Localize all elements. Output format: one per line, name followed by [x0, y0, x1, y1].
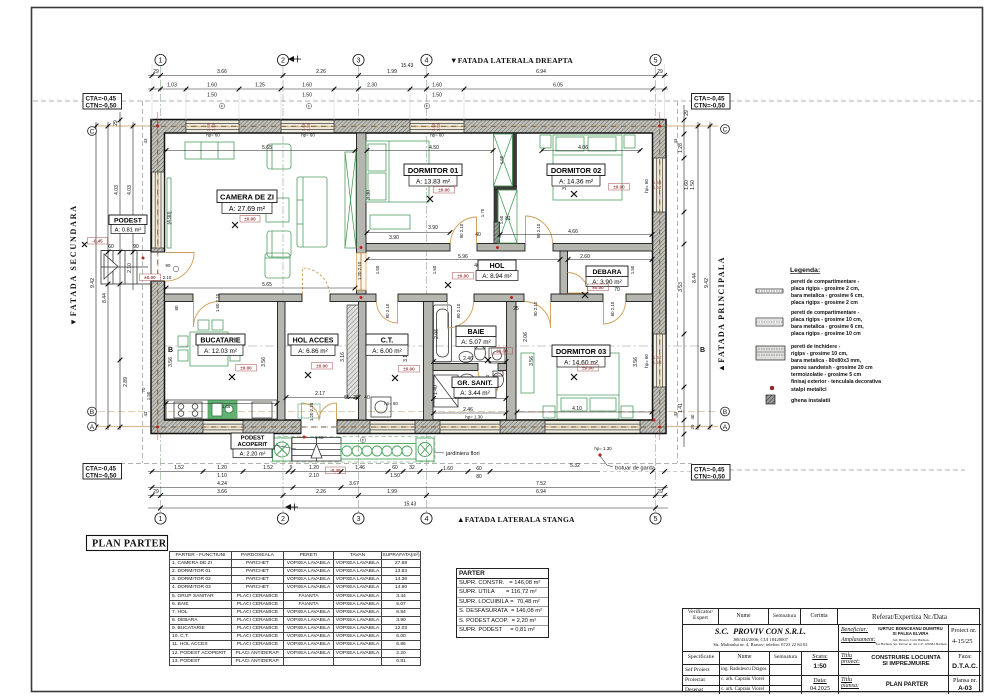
door arc dormitor 01 [451, 217, 477, 244]
jardiniera flori planter [341, 444, 416, 460]
svg-text:2: 2 [281, 56, 285, 65]
svg-text:2.26: 2.26 [316, 489, 326, 495]
svg-text:80 2.10: 80 2.10 [456, 303, 461, 318]
svg-text:A: 13.83 m²: A: 13.83 m² [416, 179, 451, 186]
svg-text:43: 43 [673, 411, 678, 416]
svg-text:3.56: 3.56 [168, 357, 174, 367]
door arc c.t. [377, 302, 398, 324]
svg-text:29: 29 [657, 69, 663, 75]
dormitor 02 closet [498, 190, 517, 243]
svg-text:3.90: 3.90 [428, 225, 438, 231]
svg-text:9: 9 [290, 465, 293, 471]
hp labels [206, 133, 649, 452]
door arc camera/hol V1 opening [357, 253, 367, 290]
svg-text:60: 60 [476, 466, 482, 472]
svg-text:1.60: 1.60 [443, 466, 453, 472]
svg-text:15.43: 15.43 [404, 502, 417, 508]
jardiniera flori leader [434, 451, 480, 457]
svg-text:6.94: 6.94 [536, 69, 546, 75]
exterior wall bottom band [151, 420, 666, 434]
plan parter title [87, 536, 168, 551]
dormitor 03 nightstand left [543, 406, 555, 418]
svg-text:C: C [723, 126, 728, 133]
svg-text:placa rigips - grosime 2 cm: placa rigips - grosime 2 cm [791, 300, 858, 306]
gr sanit wc [493, 371, 504, 387]
svg-text:60: 60 [392, 465, 398, 471]
door arc dormitor 02 [526, 216, 553, 244]
room label gr. sanit. [452, 377, 498, 398]
svg-text:1.99: 1.99 [387, 489, 397, 495]
svg-text:▼FATADA LATERALA DREAPTA: ▼FATADA LATERALA DREAPTA [450, 56, 573, 65]
svg-text:2.60: 2.60 [580, 254, 590, 260]
exterior wall left band [151, 120, 165, 434]
axis bubbles bottom [155, 513, 661, 524]
CTA box top-right [692, 94, 731, 110]
svg-text:A: 14.36 m²: A: 14.36 m² [559, 179, 594, 186]
svg-text:±0.00: ±0.00 [144, 275, 156, 280]
roof outline dashed left [142, 101, 144, 463]
door arc bottom entrance leaf 1 [302, 403, 320, 421]
svg-text:±0.00: ±0.00 [582, 366, 594, 371]
svg-text:ghena instalatii: ghena instalatii [791, 398, 831, 404]
svg-text:1.50: 1.50 [306, 122, 311, 131]
svg-text:1.60 2.10: 1.60 2.10 [215, 293, 220, 312]
svg-text:DORMITOR 01: DORMITOR 01 [408, 166, 458, 175]
title block [682, 608, 980, 692]
door arc bottom entrance leaf 2 [319, 403, 337, 421]
svg-text:hp= 1.30: hp= 1.30 [594, 446, 612, 451]
exterior wall right band [653, 120, 667, 434]
legend symbol 2 [756, 318, 783, 326]
svg-text:43: 43 [673, 138, 678, 143]
svg-text:60: 60 [108, 244, 114, 250]
window F marks top [219, 103, 429, 442]
door gap left entrance [150, 252, 166, 281]
svg-text:5: 5 [654, 514, 658, 523]
interior wall H1 corridor south [165, 294, 653, 302]
room label debara [586, 266, 628, 287]
svg-text:bara metalica - 80x80x3 mm,: bara metalica - 80x80x3 mm, [791, 358, 862, 364]
svg-text:1.03: 1.03 [167, 83, 177, 89]
svg-text:3.30: 3.30 [366, 190, 372, 200]
svg-text:DORMITOR 02: DORMITOR 02 [551, 166, 601, 175]
room label bucatarie [196, 334, 245, 356]
bucatarie fridge [252, 402, 272, 418]
gr sanit shower [434, 375, 458, 407]
svg-text:81: 81 [505, 216, 511, 222]
finishes table [169, 551, 421, 666]
svg-text:pereti de compartimentare -: pereti de compartimentare - [791, 279, 860, 285]
svg-text:DEBARA: DEBARA [592, 269, 621, 276]
dormitor 02 nightstand right [624, 135, 635, 148]
svg-text:1.52: 1.52 [174, 465, 184, 471]
svg-text:A: A [723, 424, 728, 431]
svg-text:3.67: 3.67 [349, 481, 359, 487]
svg-text:1.99: 1.99 [387, 69, 397, 75]
svg-text:A: 6.00 m²: A: 6.00 m² [372, 348, 401, 355]
svg-text:±0.00: ±0.00 [457, 274, 469, 279]
axis bubbles top [155, 54, 661, 65]
svg-text:pereti de inchidere -: pereti de inchidere - [791, 344, 841, 350]
svg-text:1.20 2.10: 1.20 2.10 [357, 261, 362, 280]
svg-text:PODEST: PODEST [114, 218, 143, 225]
bucatarie counter [166, 400, 277, 419]
camera de zi closet on V1 [345, 152, 356, 248]
svg-text:±0.00: ±0.00 [240, 366, 252, 371]
svg-text:A: 6.86 m²: A: 6.86 m² [298, 348, 327, 355]
camera de zi armchair 1 [267, 144, 291, 169]
svg-text:A: 5.07 m²: A: 5.07 m² [461, 339, 490, 346]
level dashed line top [33, 100, 981, 102]
svg-text:CTA=-0,45: CTA=-0,45 [694, 467, 725, 474]
door arc baie [448, 302, 474, 329]
svg-text:6.05: 6.05 [553, 83, 563, 89]
svg-text:8.44: 8.44 [692, 273, 698, 283]
svg-text:placa rigips - grosime 10 cm,: placa rigips - grosime 10 cm, [791, 317, 863, 323]
left letter bubbles [88, 127, 97, 431]
baie bathtub [434, 305, 452, 362]
window bottom (dormitor 03) [545, 421, 640, 433]
svg-text:±0.00: ±0.00 [316, 364, 328, 369]
svg-text:±0.00: ±0.00 [438, 188, 450, 193]
window bottom (bucatarie) [203, 421, 243, 433]
right wall axis vertical tan [659, 112, 661, 440]
svg-text:7.52: 7.52 [536, 481, 546, 487]
svg-text:90 2.10: 90 2.10 [536, 223, 541, 238]
door arc bucatarie [193, 302, 218, 328]
svg-text:1.52: 1.52 [263, 465, 273, 471]
room label c.t. [366, 334, 408, 356]
svg-text:5.65: 5.65 [262, 282, 272, 288]
svg-text:jardiniera flori: jardiniera flori [445, 451, 480, 457]
svg-text:A: 27.69 m²: A: 27.69 m² [229, 206, 266, 213]
dormitor 01 closet [494, 134, 513, 186]
svg-text:B: B [723, 409, 728, 416]
svg-text:1.25: 1.25 [255, 83, 265, 89]
dormitor 01 dresser [370, 215, 410, 229]
svg-text:▼FATADA SECUNDARA: ▼FATADA SECUNDARA [69, 204, 78, 326]
svg-text:2.06: 2.06 [434, 329, 440, 339]
svg-text:29: 29 [153, 69, 159, 75]
ghena c.t. flue hatch [347, 305, 359, 398]
interior wall H2 under dormitor 01/02 [366, 244, 653, 252]
svg-text:1.20: 1.20 [217, 465, 227, 471]
svg-text:1.46: 1.46 [355, 465, 365, 471]
svg-text:1.50: 1.50 [436, 122, 441, 131]
red column dots [142, 125, 662, 439]
svg-text:8.44: 8.44 [102, 293, 108, 303]
svg-text:hp= 1.30: hp= 1.30 [465, 415, 483, 420]
svg-text:±0.00: ±0.00 [403, 367, 415, 372]
svg-text:A: 3.44 m²: A: 3.44 m² [460, 390, 489, 397]
bucatarie table [190, 332, 228, 366]
svg-text:4: 4 [425, 514, 429, 523]
dim line top overall [148, 76, 668, 90]
room label baie [456, 326, 496, 347]
window right (dormitor 02) [653, 158, 665, 212]
svg-text:2.06: 2.06 [523, 332, 529, 342]
axis A horizontal [98, 426, 718, 428]
svg-text:4.66: 4.66 [568, 229, 578, 235]
axis 4 vertical [426, 66, 428, 512]
svg-text:1.40: 1.40 [315, 435, 324, 440]
window top 2 [281, 120, 334, 132]
svg-text:CTA=-0,45: CTA=-0,45 [694, 96, 725, 103]
svg-text:80: 80 [174, 305, 179, 310]
svg-text:BUCATARIE: BUCATARIE [200, 338, 241, 345]
interior wall V6 c.t. / baie [424, 302, 434, 421]
dormitor 03 dresser [521, 353, 534, 393]
svg-text:2.89: 2.89 [123, 377, 129, 387]
svg-text:1.50: 1.50 [653, 360, 662, 365]
svg-text:A: 12.03 m²: A: 12.03 m² [204, 348, 237, 355]
svg-text:GR. SANIT.: GR. SANIT. [457, 380, 493, 387]
window top 1 [186, 120, 239, 132]
interior dimension texts [164, 145, 655, 415]
svg-text:3.56: 3.56 [529, 356, 535, 366]
svg-text:HOL: HOL [490, 263, 506, 270]
svg-text:4.03: 4.03 [127, 185, 133, 195]
section line B-B [163, 345, 700, 347]
svg-text:hp= 60: hp= 60 [384, 401, 398, 406]
svg-text:C: C [90, 128, 95, 135]
camera de zi tv [167, 178, 171, 248]
window top 3 [410, 120, 464, 132]
window left (camera de zi) [152, 172, 164, 248]
door arc dormitor 03 b [604, 302, 626, 325]
svg-text:4.24: 4.24 [217, 481, 227, 487]
svg-text:pereti de compartimentare -: pereti de compartimentare - [791, 310, 860, 316]
exterior outer edge [151, 120, 666, 434]
axis 5 vertical [655, 66, 657, 512]
interior wall V3 debara [560, 251, 568, 294]
door arc debara [568, 273, 589, 294]
svg-text:3: 3 [357, 56, 361, 65]
left dim columns [96, 112, 151, 430]
svg-text:CAMERA DE ZI: CAMERA DE ZI [220, 193, 274, 202]
axis 3 vertical [358, 66, 360, 512]
camera de zi sideboard [185, 142, 234, 159]
svg-text:trotuar de garda: trotuar de garda [615, 466, 656, 472]
svg-text:-0,45: -0,45 [330, 468, 341, 473]
svg-text:43: 43 [143, 138, 148, 143]
svg-text:A: A [90, 424, 95, 431]
door gap bottom entrance (double door) [301, 419, 337, 435]
svg-text:CTN=-0,50: CTN=-0,50 [86, 103, 117, 110]
level markers red [88, 184, 630, 474]
trotuar de garda leader [598, 453, 655, 471]
interior wall V5 hol acces / c.t. [359, 302, 367, 421]
svg-text:hp= 60: hp= 60 [206, 133, 220, 138]
right letter bubbles [721, 125, 730, 431]
baie washing machine [489, 348, 505, 363]
CTA box bottom-left [83, 464, 122, 480]
svg-text:1.50: 1.50 [630, 265, 635, 274]
svg-text:hp= 60: hp= 60 [644, 179, 649, 193]
svg-text:1.38: 1.38 [222, 404, 231, 409]
exterior inner edge [165, 133, 653, 420]
svg-text:2.46: 2.46 [463, 356, 473, 362]
door arc gr sanit [478, 371, 498, 391]
svg-text:stalpi metalici: stalpi metalici [791, 387, 827, 393]
axis 1 vertical [160, 66, 162, 512]
interior wall V2 dormitor 01/02 zigzag [494, 133, 517, 244]
interior wall H3 baie / gr.sanit [433, 364, 507, 371]
dormitor 02 bed [553, 135, 622, 200]
porch dashed outline [271, 437, 435, 463]
extension lines top [152, 64, 665, 120]
svg-text:2.10: 2.10 [163, 275, 172, 280]
svg-text:3.66: 3.66 [217, 489, 227, 495]
left wall axis vertical tan [157, 112, 159, 440]
dormitor 03 nightstand right [621, 406, 633, 418]
svg-text:HOL ACCES: HOL ACCES [293, 338, 334, 345]
svg-text:3: 3 [357, 514, 361, 523]
svg-text:1.50: 1.50 [432, 265, 437, 274]
svg-text:B: B [700, 347, 705, 354]
room label dormitor 01 [404, 164, 462, 186]
podest acoperit green pot right [416, 438, 434, 461]
svg-text:hp= 60: hp= 60 [644, 354, 649, 368]
svg-text:±0.00: ±0.00 [613, 185, 625, 190]
svg-text:1.60: 1.60 [499, 155, 504, 164]
room label hol acces [288, 334, 338, 356]
window size labels red rotated [206, 122, 662, 365]
svg-text:1.70: 1.70 [480, 208, 485, 217]
svg-text:BAIE: BAIE [468, 329, 485, 336]
axis C horizontal [98, 125, 718, 127]
podest acoperit steps [292, 438, 341, 462]
svg-text:1.50: 1.50 [690, 180, 696, 190]
svg-text:bara metalica - grosime 6 cm,: bara metalica - grosime 6 cm, [791, 293, 864, 299]
svg-text:4.06: 4.06 [578, 145, 588, 151]
svg-text:▲FATADA PRINCIPALA: ▲FATADA PRINCIPALA [717, 256, 726, 372]
svg-text:hp= 60: hp= 60 [430, 133, 444, 138]
baie wc [475, 344, 486, 360]
svg-text:2: 2 [281, 514, 285, 523]
svg-text:90 2.10: 90 2.10 [533, 301, 538, 316]
svg-text:hp= 60: hp= 60 [301, 133, 315, 138]
svg-text:CTN=-0,50: CTN=-0,50 [86, 473, 117, 480]
hol acces mat [298, 404, 320, 418]
svg-text:CTA=-0,45: CTA=-0,45 [86, 466, 117, 473]
dormitor 01 bed [366, 141, 429, 202]
door arc dormitor 03 [525, 302, 551, 329]
room label podest [109, 215, 147, 234]
svg-text:CTN=-0,50: CTN=-0,50 [694, 103, 725, 110]
svg-text:9.42: 9.42 [90, 278, 96, 288]
svg-text:2.30: 2.30 [367, 83, 377, 89]
svg-text:40: 40 [364, 395, 370, 401]
podest left steps [101, 251, 151, 285]
svg-text:5.96: 5.96 [458, 254, 468, 260]
svg-text:1.60: 1.60 [207, 83, 217, 89]
svg-text:1.60: 1.60 [432, 83, 442, 89]
exterior wall top band [151, 120, 666, 134]
svg-text:PLAN PARTER: PLAN PARTER [92, 539, 167, 550]
svg-text:2.10: 2.10 [309, 473, 319, 479]
interior wall V1 camera de zi / dormitor 01 [357, 133, 367, 294]
c.t. boiler [371, 397, 391, 417]
svg-text:(4.90): (4.90) [167, 211, 173, 224]
section arrow bottom [285, 504, 291, 510]
svg-text:5: 5 [654, 56, 658, 65]
room label dormitor 02 [547, 164, 605, 186]
legend symbol 3 [756, 346, 785, 360]
svg-text:ACOPERIT: ACOPERIT [238, 442, 268, 448]
svg-text:B: B [90, 409, 95, 416]
dormitor 02 nightstand left [540, 135, 551, 148]
svg-text:15.43: 15.43 [401, 63, 414, 69]
legend symbol 1 [756, 289, 783, 293]
svg-text:3.66: 3.66 [217, 69, 227, 75]
svg-text:40: 40 [475, 232, 481, 238]
svg-text:1.41: 1.41 [678, 403, 684, 413]
svg-text:29: 29 [684, 110, 690, 116]
podest acoperit green pot left [273, 438, 292, 461]
star level marks [82, 191, 588, 381]
svg-text:1.50: 1.50 [302, 93, 312, 99]
svg-text:rigips - grosime 10 cm,: rigips - grosime 10 cm, [791, 351, 848, 357]
svg-text:9.42: 9.42 [704, 278, 710, 288]
svg-text:A: 0.81 m²: A: 0.81 m² [115, 228, 142, 234]
svg-text:4.50: 4.50 [429, 145, 439, 151]
bottom dim rows [148, 472, 692, 509]
roof outline dashed right [677, 101, 679, 463]
svg-text:1.20 2.10: 1.20 2.10 [309, 402, 314, 421]
svg-text:1.50: 1.50 [146, 391, 151, 400]
svg-text:1.50: 1.50 [390, 473, 400, 479]
svg-text:70: 70 [141, 387, 146, 392]
bucatarie chairs [178, 336, 188, 347]
svg-text:43: 43 [143, 411, 148, 416]
svg-text:C.T.: C.T. [381, 338, 394, 345]
baie sink [459, 352, 473, 363]
svg-text:1.50: 1.50 [207, 93, 217, 99]
svg-text:3.56: 3.56 [633, 357, 639, 367]
svg-text:3.90: 3.90 [389, 235, 399, 241]
axis 2 vertical [282, 66, 284, 512]
camera de zi sofa [297, 177, 327, 247]
svg-text:DORMITOR 03: DORMITOR 03 [556, 347, 606, 356]
CTA box top-left [83, 94, 730, 481]
svg-text:4: 4 [425, 56, 429, 65]
CTA box bottom-right [692, 465, 731, 481]
svg-text:90: 90 [133, 244, 139, 250]
svg-text:A: 8.94 m²: A: 8.94 m² [482, 273, 511, 280]
svg-text:2.17: 2.17 [315, 391, 325, 397]
svg-text:±0.00: ±0.00 [244, 217, 256, 222]
svg-text:3.16: 3.16 [340, 352, 346, 362]
interior dim lines [166, 151, 652, 414]
door size labels rotated [163, 223, 615, 440]
svg-text:bara metalica - grosime 6 cm,: bara metalica - grosime 6 cm, [791, 324, 864, 330]
svg-text:±0.00: ±0.00 [592, 285, 604, 290]
svg-text:placa rigips - grosime 10 cm: placa rigips - grosime 10 cm [791, 331, 861, 337]
svg-text:A: 2.20 m²: A: 2.20 m² [240, 452, 266, 458]
door arc left entrance [166, 253, 195, 282]
svg-text:32: 32 [409, 465, 415, 471]
svg-text:2.46: 2.46 [463, 407, 473, 413]
dormitor 03 bed [557, 353, 619, 419]
axis B horizontal [98, 411, 718, 413]
svg-text:▲FATADA LATERALA STANGA: ▲FATADA LATERALA STANGA [457, 515, 575, 524]
svg-text:CTN=-0,50: CTN=-0,50 [694, 474, 725, 481]
level dashed line bottom [120, 463, 692, 465]
window bottom (gr. sanit.) [440, 421, 500, 433]
svg-text:PODEST: PODEST [241, 436, 265, 442]
svg-text:1.28: 1.28 [678, 143, 684, 153]
